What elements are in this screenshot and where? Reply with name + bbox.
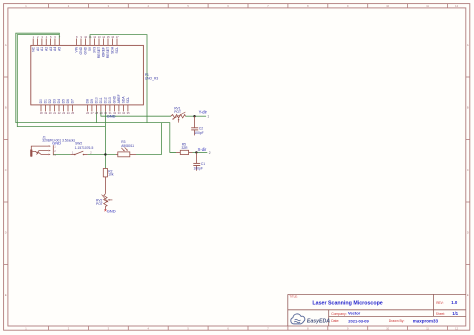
pin bottom-left D0	[40, 105, 42, 112]
switch SW2 blade	[75, 151, 84, 154]
wire R3 right lead run	[136, 154, 162, 156]
op-amp U1 body: UNO_R3 module P1 outline	[31, 45, 144, 105]
svg-text:D8: D8	[86, 99, 90, 103]
svg-text:25: 25	[71, 111, 74, 115]
wire SW2 pin2 to R3 via junction	[88, 154, 116, 156]
R3 light arrow 1 head	[123, 150, 125, 152]
svg-text:Laser Scanning Microscope: Laser Scanning Microscope	[312, 301, 382, 307]
pin bottom-right D12	[104, 105, 106, 112]
resistor R3 body	[118, 152, 130, 157]
svg-text:1-1571076-5: 1-1571076-5	[75, 146, 94, 150]
svg-text:E: E	[5, 293, 7, 297]
svg-text:D0: D0	[39, 99, 43, 103]
wire Y junction to port 1	[195, 115, 207, 117]
svg-text:SCL: SCL	[115, 47, 119, 54]
svg-text:D1: D1	[44, 99, 48, 103]
pin bottom-left D1	[45, 105, 47, 112]
J1 tip contact arrowhead	[49, 145, 51, 147]
svg-text:POT: POT	[174, 110, 181, 114]
wire GND net from D11 pin to RV1 left	[101, 111, 171, 116]
svg-text:UNO_R3: UNO_R3	[145, 77, 159, 81]
pin top-right RESET	[107, 39, 109, 46]
svg-text:Date:: Date:	[331, 319, 339, 323]
svg-text:GND: GND	[79, 46, 83, 54]
pin bottom-left D3	[54, 105, 56, 112]
capacitor C1 plate 1	[193, 162, 200, 164]
wire stub D10 pin down to net-A run	[95, 111, 97, 122]
svg-text:D7: D7	[71, 99, 75, 103]
EasyEDA logo cloud	[291, 314, 305, 324]
svg-text:16: 16	[111, 35, 114, 39]
svg-text:14: 14	[102, 35, 105, 39]
J1 ring contact arrowhead	[49, 150, 51, 152]
capacitor C2 plate 1	[191, 127, 198, 129]
pin bottom-left D4	[58, 105, 60, 112]
svg-text:X-dir: X-dir	[198, 147, 207, 152]
pin top-right GND	[80, 39, 82, 46]
wire into R5 left lead	[170, 151, 176, 153]
capacitor C1 top lead	[195, 152, 197, 163]
svg-text:SDA: SDA	[111, 46, 115, 54]
svg-text:17: 17	[116, 35, 119, 39]
RV2 adjust arrow shaft	[102, 195, 107, 201]
pin bottom-right D11	[100, 105, 102, 112]
capacitor C2 bottom lead	[194, 130, 196, 136]
pin top-left A2	[45, 39, 47, 46]
RV2 adjust arrowhead	[106, 200, 108, 202]
wire 5V pin up and over to drop at x=147	[90, 35, 147, 123]
resistor R3 right lead	[130, 154, 136, 156]
resistor R3 left lead	[116, 154, 118, 156]
J1 sleeve contact arrowhead	[49, 154, 51, 156]
svg-text:34: 34	[122, 111, 125, 115]
svg-text:13: 13	[98, 35, 101, 39]
wire net-A loop (A5 pin to left rail, bottom run to X branch)	[16, 33, 176, 152]
svg-text:1/1: 1/1	[452, 311, 458, 316]
svg-text:D13: D13	[108, 97, 112, 103]
pin top-right 5V	[89, 39, 91, 46]
svg-text:GND: GND	[113, 95, 117, 103]
svg-text:E: E	[467, 293, 469, 297]
pin top-right GND	[85, 39, 87, 46]
pin top-left A1	[41, 39, 43, 46]
svg-text:SW2: SW2	[75, 141, 82, 145]
pin bottom-right D13	[109, 105, 111, 112]
wire jack pin3 to SW2 pin1	[53, 154, 70, 156]
svg-text:21: 21	[53, 111, 56, 115]
svg-text:D10: D10	[95, 97, 99, 103]
resistor RV1 POT zigzag	[171, 115, 186, 118]
svg-text:C2: C2	[199, 126, 203, 130]
title block outline	[288, 294, 466, 326]
RV2 wiper lead	[110, 199, 113, 201]
svg-text:RESET: RESET	[106, 47, 110, 58]
svg-text:Drawn By:: Drawn By:	[389, 319, 405, 323]
svg-text:VIN: VIN	[75, 46, 79, 52]
SW2 contact 1	[74, 154, 76, 156]
svg-text:3208/RJ-001 3.5Jacks: 3208/RJ-001 3.5Jacks	[42, 138, 75, 142]
pin bottom-right SDA	[122, 105, 124, 112]
svg-text:1: 1	[207, 115, 209, 119]
RV1 adjust arrowhead	[172, 118, 174, 120]
pin top-right 3V3	[94, 39, 96, 46]
capacitor C1 plate 2	[193, 165, 200, 167]
svg-text:33: 33	[118, 111, 121, 115]
pin bottom-right GND	[113, 105, 115, 112]
ground net label GND	[104, 209, 106, 211]
svg-text:35: 35	[127, 111, 130, 115]
svg-text:D4: D4	[57, 99, 61, 103]
pin top-left A4	[54, 39, 56, 46]
svg-text:RESET: RESET	[97, 47, 101, 58]
wire X junction to port 2	[196, 151, 207, 153]
svg-text:D: D	[467, 231, 469, 235]
pin top-left A3	[50, 39, 52, 46]
pin bottom-right AREF	[118, 105, 120, 112]
svg-text:C: C	[5, 168, 7, 172]
pin top-right IOREF	[103, 39, 105, 46]
svg-text:26: 26	[86, 111, 89, 115]
svg-text:A5: A5	[58, 47, 62, 51]
wire D12 pin down to bottom junction	[104, 111, 106, 154]
J1 ring contact line	[32, 151, 48, 153]
svg-text:A908011: A908011	[121, 144, 134, 148]
pin bottom-left D2	[49, 105, 51, 112]
RV2 wiper arrowhead	[108, 199, 110, 201]
svg-text:A: A	[467, 43, 469, 47]
pin top-left A0	[37, 39, 39, 46]
svg-text:100pF: 100pF	[194, 131, 203, 135]
pin top-left NC	[32, 39, 34, 46]
svg-text:23: 23	[62, 111, 65, 115]
svg-text:D2: D2	[48, 99, 52, 103]
svg-text:D3: D3	[53, 99, 57, 103]
svg-text:Sheet:: Sheet:	[436, 312, 445, 316]
R3 light arrow 1 shaft	[121, 148, 124, 151]
switch SW2 pin 2	[84, 154, 88, 156]
R3 light arrow 2 shaft	[125, 147, 128, 150]
svg-text:19: 19	[44, 111, 47, 115]
svg-text:D11: D11	[99, 97, 103, 103]
wire branch down to R3 output	[161, 123, 163, 155]
svg-text:GND: GND	[107, 114, 116, 119]
svg-text:27: 27	[91, 111, 94, 115]
pin top-right SCL	[116, 39, 118, 46]
RV1 wiper lead	[178, 120, 180, 123]
svg-text:maxprom33: maxprom33	[413, 318, 439, 323]
pin bottom-right D9	[91, 105, 93, 112]
resistor RV2 POT zigzag	[104, 194, 107, 207]
svg-text:15: 15	[107, 35, 110, 39]
junction Y-dir	[193, 115, 195, 117]
svg-text:1.0: 1.0	[451, 300, 458, 305]
pin top-left A5	[58, 39, 60, 46]
connector J1 3.5mm jack sleeve bar	[30, 149, 32, 157]
svg-text:2: 2	[209, 151, 211, 155]
junction X-dir	[195, 151, 197, 153]
RV2 bottom lead to GND	[104, 206, 106, 210]
svg-text:Y-dir: Y-dir	[199, 109, 208, 114]
svg-text:GND: GND	[84, 46, 88, 54]
R3 light arrow 2 head	[126, 149, 128, 151]
svg-text:28: 28	[95, 111, 98, 115]
svg-text:32R: 32R	[182, 146, 189, 150]
pin top-right RESET	[98, 39, 100, 46]
svg-text:IOREF: IOREF	[102, 47, 106, 57]
svg-text:D12: D12	[104, 97, 108, 103]
wire junction down to R2	[104, 155, 106, 169]
svg-text:10k: 10k	[108, 173, 114, 177]
svg-text:C: C	[467, 168, 469, 172]
svg-text:2021-03-09: 2021-03-09	[348, 318, 369, 323]
capacitor C2 top lead	[194, 116, 196, 128]
pin bottom-left D7	[72, 105, 74, 112]
RV1 adjust arrow shaft	[174, 112, 186, 118]
svg-text:C1: C1	[201, 162, 205, 166]
capacitor C2 plate 2	[191, 129, 198, 131]
svg-text:5V: 5V	[88, 46, 92, 51]
svg-text:D: D	[5, 231, 7, 235]
J1 pin bus line	[52, 145, 54, 155]
svg-text:SDA: SDA	[122, 96, 126, 104]
pin bottom-right D10	[95, 105, 97, 112]
pin bottom-right SCL	[127, 105, 129, 112]
capacitor C1 bottom lead	[195, 166, 197, 171]
J1 sleeve contact line	[36, 153, 48, 155]
svg-text:20: 20	[49, 111, 52, 115]
resistor R5 body	[180, 150, 188, 154]
svg-text:12: 12	[93, 35, 96, 39]
SW2 contact 2	[83, 154, 85, 156]
R2 to RV2 lead	[104, 177, 106, 194]
pin top-right SDA	[112, 39, 114, 46]
svg-text:Company:: Company:	[331, 312, 347, 316]
RV1 wiper arrowhead	[178, 118, 180, 120]
svg-text:3V3: 3V3	[93, 47, 97, 53]
svg-text:24: 24	[67, 111, 70, 115]
resistor R2 body	[103, 169, 107, 177]
pin bottom-left D5	[63, 105, 65, 112]
junction bottom rail	[104, 153, 106, 155]
svg-text:22: 22	[58, 111, 61, 115]
svg-text:10: 10	[84, 35, 87, 39]
svg-text:B: B	[467, 106, 469, 110]
wire R5 to X junction	[193, 151, 197, 153]
pin bottom-left D6	[67, 105, 69, 112]
wire loop-B from A5 area left vertical and bottom run	[17, 35, 105, 127]
svg-text:11: 11	[89, 35, 92, 39]
pin top-right VIN	[76, 39, 78, 46]
J1 tip contact line	[31, 146, 48, 149]
svg-text:D9: D9	[90, 99, 94, 103]
svg-text:GND: GND	[107, 208, 116, 213]
resistor R5 right lead	[189, 151, 193, 153]
svg-text:D5: D5	[62, 99, 66, 103]
svg-text:EasyEDA: EasyEDA	[307, 319, 330, 325]
svg-text:D6: D6	[66, 99, 70, 103]
svg-text:Vector: Vector	[348, 311, 361, 316]
svg-text:18: 18	[40, 111, 43, 115]
svg-text:REV:: REV:	[436, 301, 443, 305]
svg-text:29: 29	[100, 111, 103, 115]
svg-text:POT: POT	[96, 202, 103, 206]
svg-text:100pF: 100pF	[194, 167, 203, 171]
svg-text:SCL: SCL	[126, 97, 130, 104]
wire RV1 right to Y junction	[185, 115, 194, 117]
svg-text:AREF: AREF	[117, 94, 121, 103]
switch SW2 pin 1	[70, 154, 74, 156]
svg-text:B: B	[5, 106, 7, 110]
pin bottom-right D8	[86, 105, 88, 112]
resistor R5 left lead	[176, 151, 180, 153]
svg-text:A: A	[5, 43, 7, 47]
svg-text:TITLE:: TITLE:	[289, 295, 298, 299]
